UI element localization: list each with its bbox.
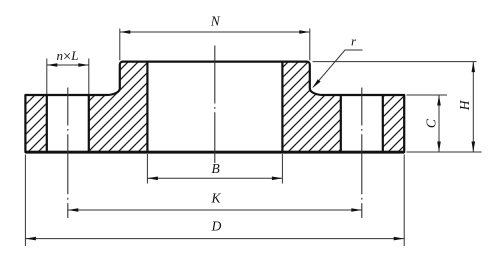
n×L arrow right — [78, 63, 89, 67]
dimension N line — [120, 31, 310, 33]
dimension C line — [438, 95, 440, 152]
D arrow right — [394, 237, 405, 241]
hatched section: left plate band — [25, 95, 46, 152]
svg-text:K: K — [210, 190, 221, 205]
dimension D extension lines — [25, 155, 404, 247]
C arrow bottom — [437, 142, 441, 153]
r leader arrow — [312, 79, 320, 88]
H arrow top — [472, 62, 476, 73]
flange vertical centerline — [214, 46, 216, 164]
svg-text:C: C — [423, 118, 438, 128]
svg-text:H: H — [457, 99, 472, 111]
left bolt hole centerline — [67, 88, 69, 219]
dimension H line — [472, 62, 474, 152]
hatched section: left hub wall + plate band — [89, 62, 148, 152]
hatched section: right plate band — [383, 95, 404, 152]
K arrow right — [351, 208, 362, 212]
plate top extension right (for C) — [407, 94, 448, 96]
dimension B extension lines — [147, 154, 282, 184]
dimension N extension lines — [120, 29, 310, 61]
N arrow left — [120, 30, 131, 34]
D arrow left — [25, 237, 36, 241]
N arrow right — [299, 30, 310, 34]
hub top extension right (for H) — [313, 61, 477, 63]
left bolt hole edges — [47, 95, 89, 152]
svg-text:N: N — [210, 14, 221, 29]
dimension n×L extension lines — [47, 59, 89, 95]
bore right edge — [281, 62, 283, 152]
dimension D line — [25, 238, 404, 240]
svg-text:n×L: n×L — [57, 48, 79, 65]
plate bottom edge (heavier) — [25, 151, 404, 154]
dimension B line — [147, 177, 282, 179]
n×L arrow left — [47, 63, 58, 67]
right bolt hole centerline — [361, 88, 363, 219]
leader r — [314, 50, 363, 87]
H arrow bottom — [472, 142, 476, 153]
svg-text:D: D — [211, 219, 222, 234]
svg-text:B: B — [211, 161, 219, 176]
B arrow left — [147, 177, 158, 181]
dimension n×L line — [47, 64, 89, 66]
K arrow left — [68, 208, 79, 212]
hatched section: right hub wall + plate band — [282, 62, 340, 152]
B arrow right — [272, 177, 283, 181]
flange outer silhouette — [25, 62, 404, 152]
dimension K line — [68, 209, 362, 211]
C arrow top — [437, 95, 441, 106]
bore left edge — [146, 62, 148, 152]
plate bottom extension right (for C and H) — [407, 151, 482, 153]
right bolt hole edges — [341, 95, 383, 152]
